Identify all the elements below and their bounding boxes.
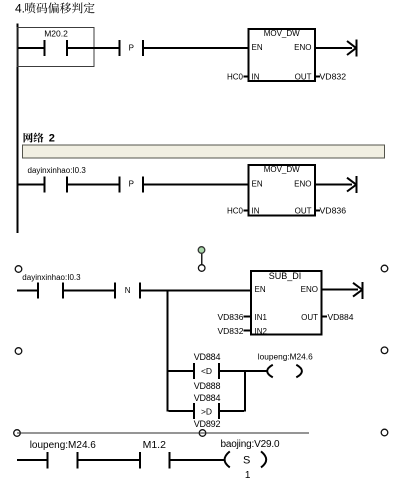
svg-text:IN2: IN2	[255, 327, 268, 336]
svg-text:dayinxinhao:I0.3: dayinxinhao:I0.3	[22, 273, 81, 282]
svg-text:S: S	[243, 455, 250, 467]
svg-text:loupeng:M24.6: loupeng:M24.6	[30, 440, 97, 451]
svg-text:VD884: VD884	[328, 312, 354, 322]
svg-text:OUT: OUT	[295, 72, 312, 81]
svg-text:EN: EN	[252, 43, 263, 52]
svg-text:2: 2	[49, 133, 55, 145]
svg-text:1: 1	[245, 470, 251, 479]
svg-text:HC0: HC0	[227, 72, 244, 81]
svg-text:dayinxinhao:I0.3: dayinxinhao:I0.3	[28, 166, 87, 175]
svg-text:IN1: IN1	[255, 313, 268, 322]
svg-text:ENO: ENO	[301, 285, 318, 294]
svg-text:VD836: VD836	[320, 205, 347, 215]
svg-text:EN: EN	[252, 179, 263, 188]
svg-text:VD832: VD832	[320, 71, 347, 81]
svg-text:VD836: VD836	[218, 312, 244, 322]
svg-text:P: P	[129, 180, 134, 189]
svg-text:ENO: ENO	[294, 179, 311, 188]
svg-text:IN: IN	[252, 72, 260, 81]
svg-text:4.: 4.	[15, 2, 25, 16]
svg-text:MOV_DW: MOV_DW	[264, 29, 300, 38]
svg-text:VD892: VD892	[194, 419, 221, 429]
svg-text:P: P	[129, 43, 134, 52]
svg-text:baojing:V29.0: baojing:V29.0	[221, 439, 280, 450]
svg-text:M1.2: M1.2	[143, 439, 167, 451]
svg-text:M20.2: M20.2	[44, 29, 68, 39]
svg-text:>D: >D	[201, 406, 212, 416]
svg-text:N: N	[125, 286, 131, 295]
svg-text:SUB_DI: SUB_DI	[269, 271, 302, 281]
svg-text:IN: IN	[252, 206, 260, 215]
svg-text:OUT: OUT	[295, 206, 312, 215]
svg-text:MOV_DW: MOV_DW	[264, 165, 300, 174]
svg-text:EN: EN	[255, 285, 266, 294]
svg-text:VD888: VD888	[194, 381, 221, 391]
svg-text:VD884: VD884	[194, 352, 221, 362]
svg-text:VD832: VD832	[218, 326, 244, 336]
svg-text:HC0: HC0	[227, 206, 244, 215]
svg-text:ENO: ENO	[294, 43, 311, 52]
svg-text:OUT: OUT	[301, 313, 318, 322]
svg-text:<D: <D	[201, 366, 212, 376]
svg-text:loupeng:M24.6: loupeng:M24.6	[258, 352, 313, 362]
svg-text:VD884: VD884	[194, 393, 221, 403]
